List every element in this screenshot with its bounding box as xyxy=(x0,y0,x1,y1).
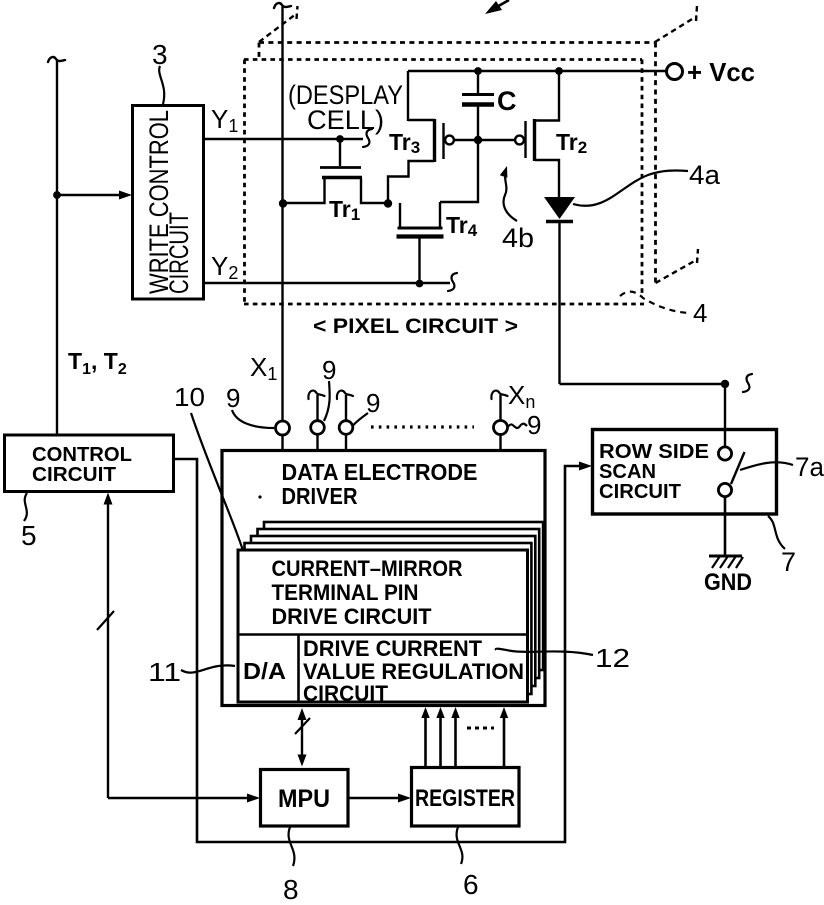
data electrode driver box xyxy=(222,451,545,706)
wire X1 column line xyxy=(281,6,283,421)
label 8 with squiggle xyxy=(289,827,295,866)
svg-text:9: 9 xyxy=(322,355,336,385)
svg-text:9: 9 xyxy=(527,410,541,440)
wire control to row side scan (around bottom) xyxy=(174,459,583,842)
terminal X1 circle xyxy=(276,421,290,435)
wire T1,T2 bus vertical xyxy=(56,60,58,435)
Tr3 source stepped wire to node xyxy=(388,161,434,203)
node junction on T1,T2 bus xyxy=(53,191,61,199)
wire gate node (mirror node) xyxy=(454,139,515,141)
label 7 with squiggle xyxy=(768,516,785,549)
svg-text:7: 7 xyxy=(781,547,796,577)
svg-text:10: 10 xyxy=(174,382,205,412)
bus arrows REGISTER to driver xyxy=(424,713,427,767)
label 6 with squiggle xyxy=(457,827,463,864)
dots between arrows xyxy=(467,727,494,730)
svg-text:CURRENT–MIRROR: CURRENT–MIRROR xyxy=(272,556,463,581)
node cap top xyxy=(474,67,482,75)
wire arrow into write control circuit xyxy=(57,194,124,196)
svg-text:4: 4 xyxy=(693,298,707,328)
label 5 with squiggle xyxy=(24,493,27,521)
wire control-MPU L with arrows xyxy=(107,497,109,798)
svg-text:CONTROL: CONTROL xyxy=(32,444,132,466)
transistor Tr1 xyxy=(339,139,341,166)
slash break on vertical xyxy=(97,611,114,630)
label 4b with arrow xyxy=(504,172,518,221)
label 9 fourth with leader xyxy=(508,424,527,428)
node Tr1 source on X1 xyxy=(279,199,287,207)
label 4a with leader xyxy=(573,170,688,205)
node Y1 gate junction xyxy=(336,135,344,143)
cut mark top-right of box 4 xyxy=(655,6,697,42)
svg-text:DRIVE CURRENT: DRIVE CURRENT xyxy=(303,636,483,661)
label 12 with leader xyxy=(496,649,593,655)
svg-text:12: 12 xyxy=(595,643,630,673)
write control circuit box 3 xyxy=(133,106,204,300)
svg-text:4b: 4b xyxy=(502,223,534,253)
card stack current-mirror terminal pin drive circuits xyxy=(264,522,543,670)
LED diode 4a xyxy=(544,197,575,219)
svg-text:+ Vcc: + Vcc xyxy=(687,57,755,87)
control circuit box 5 xyxy=(5,435,174,492)
label 4 with dashed leader xyxy=(620,292,689,313)
svg-text:CIRCUIT: CIRCUIT xyxy=(164,212,194,294)
svg-text:REGISTER: REGISTER xyxy=(415,785,515,812)
svg-text:CIRCUIT: CIRCUIT xyxy=(599,481,681,503)
break on Y1 wire xyxy=(363,129,372,147)
figure pointer arrow top center xyxy=(495,0,509,8)
svg-text:< PIXEL CIRCUIT >: < PIXEL CIRCUIT > xyxy=(313,315,518,338)
divider lines D/A xyxy=(238,633,527,636)
outer dashed box 4 (display cell array) xyxy=(259,41,655,44)
break mark top of X1 xyxy=(274,3,291,8)
node Tr4 gate on Y2 xyxy=(416,280,424,288)
svg-text:C: C xyxy=(497,86,517,116)
terminal 3 xyxy=(339,421,353,435)
arrow MPU to REGISTER xyxy=(348,797,403,799)
label 7a with leader xyxy=(740,462,793,470)
capacitor C xyxy=(477,71,479,93)
ground symbol xyxy=(709,555,742,558)
svg-text:DRIVE CIRCUIT: DRIVE CIRCUIT xyxy=(272,604,433,629)
svg-text:ROW SIDE: ROW SIDE xyxy=(599,441,709,463)
svg-text:6: 6 xyxy=(463,869,479,900)
svg-text:GND: GND xyxy=(704,569,752,596)
slash break xyxy=(295,718,310,734)
switch 7a xyxy=(718,447,731,460)
break mark top of T1,T2 bus xyxy=(48,57,65,62)
REGISTER box 6 xyxy=(412,768,520,827)
svg-text:5: 5 xyxy=(21,520,37,551)
wire node down to Tr4 drain xyxy=(440,144,478,202)
svg-text:4a: 4a xyxy=(689,160,721,190)
svg-text:D/A: D/A xyxy=(243,658,286,684)
svg-text:8: 8 xyxy=(283,874,299,900)
terminal +Vcc xyxy=(667,64,683,80)
svg-text:9: 9 xyxy=(226,383,240,413)
cut mark bottom-right of box 4 xyxy=(656,249,699,283)
wire +Vcc rail xyxy=(408,70,666,72)
front card xyxy=(238,550,528,702)
terminal 2 xyxy=(311,421,325,435)
svg-text:7a: 7a xyxy=(795,452,824,482)
MPU box 8 xyxy=(261,770,349,827)
wire Y1 row line xyxy=(204,138,363,140)
svg-text:CIRCUIT: CIRCUIT xyxy=(32,464,116,486)
wire LED row to row side scan xyxy=(560,383,726,385)
wire Y2 row line xyxy=(204,282,450,284)
svg-text:DRIVER: DRIVER xyxy=(282,483,358,509)
terminal Xn circle xyxy=(494,421,508,435)
row side scan circuit box 7 xyxy=(593,430,777,515)
svg-text:11: 11 xyxy=(148,657,181,687)
svg-text:MPU: MPU xyxy=(278,785,330,813)
inner dashed box pixel circuit xyxy=(244,58,642,61)
dotted continuation xyxy=(371,425,474,428)
svg-text:TERMINAL PIN: TERMINAL PIN xyxy=(272,580,419,605)
break on Y2 wire xyxy=(448,273,457,291)
svg-text:SCAN: SCAN xyxy=(599,461,656,483)
svg-text:3: 3 xyxy=(152,39,168,70)
cut mark top-left of box 4 xyxy=(259,6,298,42)
double arrow driver-MPU xyxy=(301,714,303,761)
transistor Tr4 xyxy=(399,203,401,227)
wire to GND xyxy=(724,496,727,556)
stray dot xyxy=(258,495,261,498)
svg-text:DATA ELECTRODE: DATA ELECTRODE xyxy=(282,459,478,485)
svg-text:CIRCUIT: CIRCUIT xyxy=(303,681,389,706)
transistor Tr3 xyxy=(407,71,409,121)
node Tr2 drain xyxy=(555,67,563,75)
svg-text:CELL): CELL) xyxy=(307,105,384,135)
node mirror gates xyxy=(384,199,392,207)
transistor Tr2 xyxy=(515,136,524,145)
